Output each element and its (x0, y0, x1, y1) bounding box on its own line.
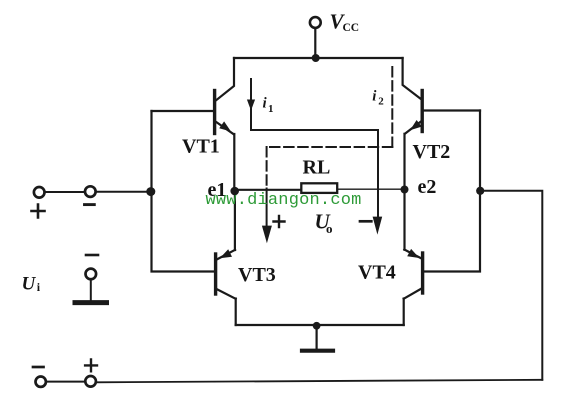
wire input terminals (45, 191, 85, 193)
svg-text:VT4: VT4 (358, 262, 396, 284)
wire bottom rail (236, 324, 404, 326)
terminal input ground (75, 255, 107, 303)
node e2 (401, 186, 409, 194)
svg-text:VT1: VT1 (182, 136, 220, 158)
svg-text:VT2: VT2 (413, 141, 451, 163)
current i2 dashed path (391, 67, 393, 147)
wire input to node (96, 191, 147, 193)
svg-text:CC: CC (343, 22, 360, 34)
terminal bottom plus (85, 376, 96, 387)
svg-text:e2: e2 (418, 176, 437, 198)
terminal input second (85, 186, 96, 197)
wire e2 down to VT4 (403, 190, 405, 250)
label plus output (274, 216, 285, 227)
wire right node to VT4 base (424, 192, 480, 272)
node right B (476, 187, 484, 195)
wire resistor to e2 (337, 188, 404, 190)
label minus bottom (33, 366, 44, 369)
wire VT2 base to right node (479, 111, 481, 190)
terminal bottom-left minus (36, 377, 46, 387)
transistor VT3 (216, 249, 236, 298)
terminal input top-left (34, 187, 45, 198)
arrow output left (plus side) (266, 189, 268, 229)
svg-text:RL: RL (303, 157, 331, 179)
svg-text:i: i (263, 96, 268, 112)
arrow i1 (247, 100, 255, 111)
wire right node to bottom-right (481, 191, 542, 380)
ground (302, 326, 333, 351)
label plus input (32, 205, 45, 218)
label minus input (85, 203, 95, 206)
wire top rail (234, 57, 403, 59)
resistor RL (301, 183, 337, 193)
node input A (146, 187, 155, 196)
arrow i1 end (minus side) (373, 217, 383, 235)
wire bottom terminals (46, 381, 85, 383)
node ground (313, 322, 321, 330)
wire VT2 emitter to e2 (403, 134, 405, 190)
label plus bottom (85, 360, 97, 372)
node e1 (230, 187, 239, 196)
terminal VCC (310, 17, 321, 28)
label minus output (360, 220, 371, 223)
transistor VT1 (152, 58, 235, 134)
wire VT3 collector down (235, 299, 237, 326)
svg-text:U: U (22, 274, 37, 295)
wire e1 down to VT3 (234, 191, 236, 250)
current i1 path (251, 79, 378, 220)
svg-text:VT3: VT3 (238, 264, 276, 286)
node top center (312, 54, 320, 62)
wire VT1 base left column (152, 111, 215, 272)
wire VCC stem (314, 28, 316, 58)
wire VT4 collector down (403, 299, 405, 326)
wire e1 to resistor (235, 189, 302, 191)
wire VT1 emitter to e1 (233, 134, 235, 191)
svg-text:1: 1 (268, 103, 274, 115)
svg-text:i: i (37, 280, 41, 294)
svg-text:i: i (372, 89, 377, 105)
transistor VT2 (403, 58, 480, 134)
svg-text:o: o (326, 221, 333, 236)
transistor VT4 (404, 249, 423, 299)
svg-text:2: 2 (378, 96, 384, 108)
svg-text:www.diangon.com: www.diangon.com (206, 191, 362, 210)
wire bottom return (96, 380, 542, 383)
